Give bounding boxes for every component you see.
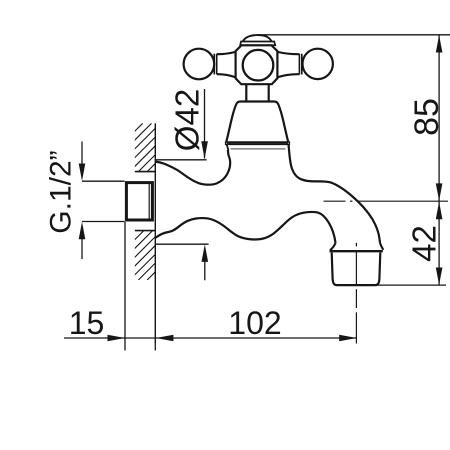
- wall face line (right edge, doubles as extension line): [154, 123, 156, 343]
- arrow up at handle top: [436, 35, 443, 53]
- bonnet skirt left: [227, 145, 229, 151]
- handle right neck bottom: [277, 74, 299, 77]
- threaded connector G 1/2: [126, 183, 152, 220]
- body upper outline: wall to bonnet pocket: [155, 150, 230, 185]
- handle right ball: [303, 49, 333, 79]
- valve stem right line: [268, 85, 270, 102]
- arrow up at flange bottom: [202, 244, 209, 262]
- G 1/2 dimension line upper: [81, 142, 83, 165]
- arrow up at centerline (42): [436, 202, 443, 220]
- arrow right at wall left face (15): [108, 335, 126, 342]
- wall upper hatched block: [94, 123, 204, 171]
- svg-text:Ø42: Ø42: [169, 89, 206, 151]
- extension below wall face: [154, 343, 156, 351]
- valve stem left line: [245, 85, 247, 102]
- arrow down at centerline (85): [436, 183, 443, 201]
- extension line left of wall: [124, 222, 126, 351]
- handle hub octagon: [236, 45, 278, 84]
- handle left neck top: [217, 52, 236, 54]
- svg-text:G.1/2”: G.1/2”: [45, 150, 78, 233]
- extension line: handle top (85 dim): [257, 34, 450, 36]
- handle hub front boss circle: [243, 50, 274, 81]
- svg-text:42: 42: [406, 225, 443, 262]
- outlet collar flare right: [380, 243, 383, 250]
- bottom dimension line: [64, 337, 357, 339]
- arrow up at connector bottom: [79, 222, 86, 240]
- arrow down at flange top: [201, 141, 208, 159]
- flange bottom arrow tail: [204, 262, 206, 281]
- bonnet ring lower thin line: [231, 148, 286, 150]
- outlet body: [332, 253, 381, 286]
- outlet collar ring line: [330, 250, 383, 252]
- body flange bottom extension line: [155, 243, 208, 245]
- svg-text:15: 15: [69, 305, 105, 341]
- arrow down at outlet bottom: [436, 268, 443, 286]
- arrow down at connector top: [79, 164, 86, 182]
- extension line connector top: [82, 180, 125, 182]
- arrow right at outlet centerline (102): [339, 335, 357, 342]
- diameter 42 dimension line: [204, 89, 206, 159]
- handle right collar: [298, 54, 300, 75]
- G 1/2 dimension line lower tail: [81, 239, 83, 259]
- svg-text:85: 85: [408, 98, 446, 136]
- handle left neck bottom: [217, 74, 236, 77]
- arrow left at wall right face (102): [156, 335, 174, 342]
- spout top outline from bonnet to outlet: [289, 145, 380, 243]
- bonnet ring band: [226, 142, 290, 145]
- handle left collar: [213, 54, 215, 75]
- handle left ball: [184, 49, 215, 80]
- body flange top extension line: [155, 159, 206, 161]
- svg-text:102: 102: [228, 305, 281, 341]
- handle dome: [243, 35, 272, 41]
- body lower outline: wall wave to spout: [156, 212, 336, 243]
- wall lower hatched block: [94, 231, 205, 280]
- spout horizontal centerline (dash-dot): [324, 200, 449, 202]
- outlet vertical centerline (dash-dot): [355, 243, 357, 344]
- connector inner thread line: [148, 182, 150, 221]
- outlet collar flare left: [330, 243, 336, 251]
- bonnet skirt right: [287, 145, 289, 148]
- bonnet bell: [226, 102, 288, 142]
- extension line: outlet bottom (42 dim): [336, 284, 446, 286]
- handle right neck top: [277, 52, 299, 54]
- extension line connector bottom: [82, 221, 125, 223]
- right vertical dimension line: [438, 35, 440, 285]
- handle cap band: [240, 42, 275, 46]
